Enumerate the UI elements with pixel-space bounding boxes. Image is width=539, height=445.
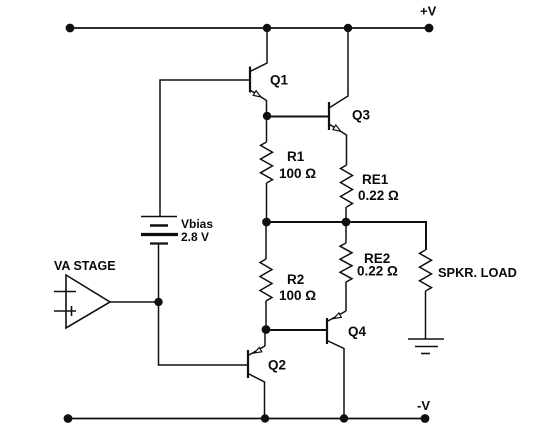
transistor Q4: [327, 311, 346, 419]
node Q1 collector junction: [263, 24, 271, 32]
node Q2 collector junction: [261, 414, 269, 422]
node +V terminal: [425, 24, 434, 33]
svg-text:Q2: Q2: [268, 358, 286, 373]
resistor RE1: [341, 165, 353, 207]
svg-text:Vbias: Vbias: [181, 217, 213, 231]
node top-left terminal: [66, 24, 75, 33]
svg-text:0.22 Ω: 0.22 Ω: [358, 188, 399, 203]
resistor R1: [261, 142, 273, 183]
svg-text:+V: +V: [420, 4, 437, 19]
svg-text:VA STAGE: VA STAGE: [54, 259, 116, 273]
node Q1 emitter / R1 / Q3 base: [263, 112, 271, 120]
svg-text:Q4: Q4: [348, 324, 367, 339]
wire Q1 emitter node to R1: [266, 116, 268, 142]
wire Q2 emitter from node: [264, 330, 266, 347]
svg-text:-V: -V: [417, 398, 430, 413]
wire -V bottom rail: [68, 418, 425, 420]
wire Q1 base: [160, 80, 250, 216]
ground: [408, 339, 444, 354]
transistor Q3: [329, 28, 348, 165]
svg-text:SPKR. LOAD: SPKR. LOAD: [438, 265, 517, 280]
wire mid junction: [267, 222, 427, 250]
svg-text:100 Ω: 100 Ω: [279, 166, 316, 181]
svg-text:RE1: RE1: [362, 172, 389, 187]
wire +V top rail: [70, 27, 429, 29]
node Q3 collector junction: [344, 24, 352, 32]
node R2 bottom junction: [262, 325, 271, 334]
resistor SPKR. LOAD: [420, 250, 432, 291]
battery Vbias: [141, 217, 178, 244]
transistor Q1: [250, 28, 267, 116]
svg-text:0.22 Ω: 0.22 Ω: [357, 263, 398, 278]
wire R1 to mid junction: [266, 183, 268, 222]
svg-text:R1: R1: [287, 149, 305, 164]
node mid junction left: [262, 218, 271, 227]
svg-text:Q1: Q1: [270, 73, 289, 88]
resistor R2: [265, 222, 267, 259]
node VA output: [154, 298, 162, 306]
wire Q3 base: [267, 116, 329, 118]
wire Q4 base: [266, 329, 327, 331]
op-amp VA stage triangle: [54, 275, 110, 328]
node -V terminal: [421, 414, 430, 423]
wire to Q2 base: [159, 302, 249, 365]
wire VA output: [110, 301, 159, 303]
svg-text:100 Ω: 100 Ω: [279, 288, 316, 303]
resistor RE2: [345, 222, 347, 243]
node mid junction right: [342, 218, 351, 227]
transistor Q2: [248, 346, 265, 419]
svg-text:Q3: Q3: [352, 108, 371, 123]
svg-text:2.8 V: 2.8 V: [181, 230, 209, 244]
node Q4 collector junction: [340, 414, 348, 422]
svg-text:R2: R2: [287, 272, 304, 287]
wire battery to output node: [158, 244, 160, 303]
node bottom-left terminal: [64, 414, 73, 423]
